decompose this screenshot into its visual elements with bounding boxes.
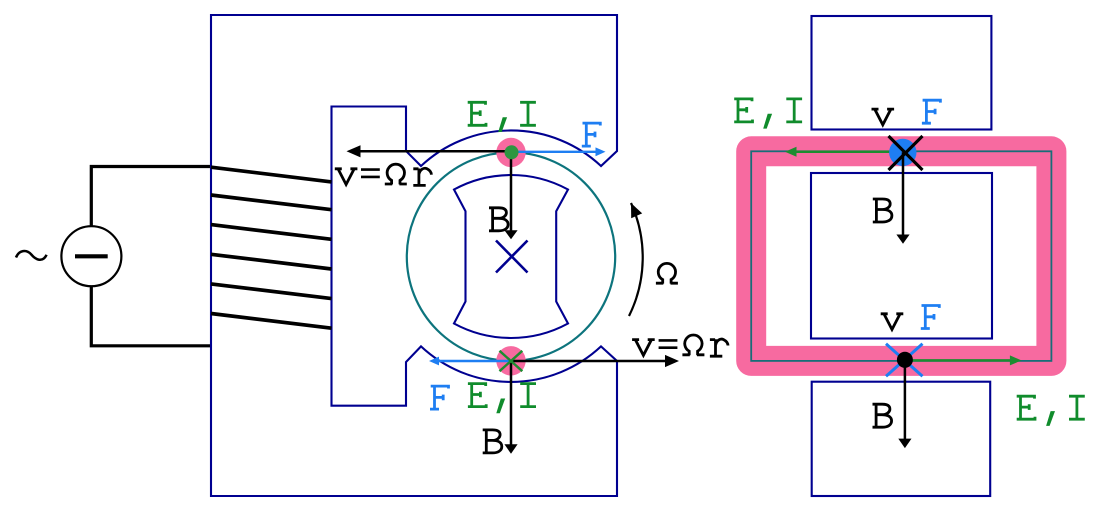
rotor core outline — [454, 175, 568, 338]
rotor circumference circle — [407, 152, 615, 360]
F arrow bottom (leftwards, blue) — [439, 360, 511, 362]
cage loop conductor line — [751, 151, 1051, 361]
AC source polarity bar — [75, 254, 108, 258]
label F top left-diagram — [582, 123, 601, 146]
top conductor blue circle right-diagram — [889, 139, 916, 166]
middle core block right-diagram — [811, 173, 992, 339]
green current arrow bottom right-diagram (rightwards) — [905, 359, 1010, 362]
green dot current out of page, top conductor — [505, 145, 519, 159]
label F bottom left-diagram — [430, 386, 449, 409]
bottom conductor pink — [496, 346, 525, 375]
B arrow top (downwards) — [510, 152, 513, 231]
label E,I bottom right of right-diagram — [1017, 396, 1035, 419]
B arrow bottom (downwards) — [510, 361, 513, 446]
X over top conductor — [889, 136, 923, 170]
top conductor pink — [496, 138, 525, 167]
stator coil winding turn 4 — [211, 254, 332, 269]
label E,I top left of right-diagram — [734, 99, 752, 122]
AC source V1 circle — [61, 226, 121, 286]
v arrow bottom (rightwards) — [511, 360, 666, 363]
label v=Omega r top — [335, 169, 358, 185]
label E,I top left-diagram — [468, 102, 486, 125]
wire top from source to coil — [91, 167, 212, 227]
label F top right-diagram — [922, 100, 941, 123]
cage loop pink band — [751, 151, 1051, 361]
label B bottom right-diagram — [873, 404, 892, 427]
label B top left-diagram — [489, 208, 508, 231]
label B top right-diagram — [873, 199, 892, 222]
blue X at bottom conductor — [886, 344, 923, 377]
v arrow top (leftwards) — [359, 150, 511, 153]
stator coil winding turn 5 — [211, 284, 332, 299]
B arrow bottom right-diagram — [904, 360, 907, 440]
rotation arrow omega arc — [629, 203, 643, 316]
stator coil winding turn 3 — [211, 225, 332, 240]
label v bottom right-diagram — [881, 314, 904, 330]
label v=Omega r bottom — [632, 340, 655, 356]
stator core outline — [211, 15, 617, 496]
lower core block right-diagram — [812, 382, 991, 496]
bottom conductor black dot right-diagram — [897, 352, 913, 368]
F arrow top (rightwards, blue) — [511, 151, 596, 153]
wire bottom from source to coil — [91, 286, 212, 346]
green current arrow top right-diagram (leftwards) — [796, 151, 903, 154]
label F bottom right-diagram — [921, 306, 940, 329]
stator coil winding turn 2 — [211, 195, 332, 210]
label Omega — [656, 263, 678, 283]
stator coil winding turn 1 — [211, 167, 332, 182]
label B bottom left-diagram — [483, 430, 502, 453]
AC source symbol ~ — [16, 251, 47, 260]
flux into page X at rotor center — [496, 241, 528, 273]
B arrow top right-diagram — [902, 152, 905, 236]
stator coil winding turn 6 — [211, 314, 332, 329]
label v top right-diagram — [872, 109, 895, 125]
upper core block right-diagram — [812, 16, 992, 130]
label E,I bottom left-diagram — [468, 384, 486, 407]
green X current into page, bottom conductor — [500, 351, 523, 371]
